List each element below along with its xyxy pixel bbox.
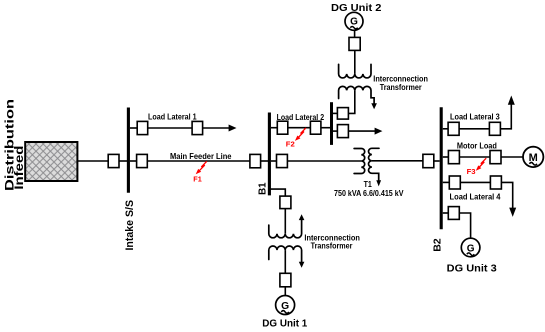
bus Intake S/S [127,108,130,193]
breaker DG2 tie [337,108,348,120]
arrow lateral 1 [229,125,237,132]
wire Intake bus to feeder breaker B [130,160,137,162]
transformer DG1 primary winding [269,220,302,238]
arrow lateral 3 up [508,96,515,105]
arrow T1 secondary down [376,180,381,186]
breaker motor-b [490,151,501,164]
wire G2 to breaker [354,30,356,37]
breaker A (infeed side) [108,154,119,167]
wire mid bus to DG2 breaker [333,112,337,114]
breaker D (feeder right of B1) [277,154,288,167]
wire breaker E to B2 [434,160,440,162]
wire lateral 4 [460,181,490,183]
svg-text:F2: F2 [286,139,295,148]
svg-text:DG Unit 3: DG Unit 3 [447,264,497,275]
svg-text:DG Unit 1: DG Unit 1 [262,319,307,330]
svg-text:Transformer: Transformer [380,83,422,92]
motor M circle [523,147,543,167]
generator G2 circle [345,12,363,30]
svg-text:750 kVA 6.6/0.415 kV: 750 kVA 6.6/0.415 kV [334,188,404,198]
generator G3 circle [461,238,480,257]
source: distribution infeed block (hatched) [25,142,77,181]
svg-text:Load Lateral 2: Load Lateral 2 [277,113,325,122]
arrow DG1 secondary down [299,262,305,268]
wire B1 bottom elbow to DG1 breaker [268,189,285,196]
wire B1 to breaker D [271,160,277,162]
arrow lateral 4 down [509,208,516,217]
breaker B (feeder) [137,154,148,167]
wire lateral 1 [148,127,192,129]
svg-text:B2: B2 [432,238,443,252]
generator G1 circle [276,296,295,315]
breaker lateral1-b [192,121,203,134]
arrow DG1 primary up [299,214,305,220]
label Interconnection Transformer (DG2) [373,74,428,92]
svg-text:Transformer: Transformer [311,242,353,251]
svg-text:Main Feeder Line: Main Feeder Line [170,152,232,161]
breaker lateral4-a [449,176,460,189]
wire lateral 2 mid [288,127,311,129]
svg-text:Infeed: Infeed [12,146,26,190]
wire motor to M [501,156,523,158]
wire B2 to motor breaker [443,156,449,158]
transformer DG2 primary winding [339,64,371,78]
svg-text:Load Lateral 4: Load Lateral 4 [450,192,501,201]
svg-text:Load Lateral 1: Load Lateral 1 [148,113,197,122]
wire DG3 elbow to generator [459,213,470,238]
fault F3 arrow [476,158,486,171]
breaker E (feeder, left of B2) [423,154,434,167]
transformer T1 primary winding [354,149,365,174]
wire breaker to G1 [284,287,286,295]
wire lateral 1 end [203,127,230,129]
breaker lateral2-a [277,121,288,134]
wire motor mid [459,156,490,158]
wire lateral 3 [459,128,489,130]
wire B1 to lateral2 breaker [271,127,277,129]
transformer T1 secondary winding [369,148,380,181]
transformer DG1 secondary winding [269,246,302,262]
breaker lateral3-a [448,122,459,135]
wire DG1 transformer to breaker [284,250,286,273]
fault F1 arrow [196,161,207,174]
breaker lateral3-b [489,122,500,135]
svg-text:Load Lateral 3: Load Lateral 3 [450,112,500,121]
wire main feeder line [147,160,250,162]
breaker DG2 [349,37,360,50]
svg-text:F3: F3 [467,167,476,176]
wire lateral 4 elbow down [501,182,512,208]
wire Intake bus to lateral1 breaker [130,127,137,129]
wire breaker C to B1 bus [261,160,268,162]
wire feeder to T1 [287,160,361,162]
label Interconnection Transformer (DG1) [304,234,360,251]
wire breaker A to Intake bus [119,160,128,162]
breaker lateral2-b [310,121,321,134]
wire B2 to DG3 breaker [443,212,449,214]
arrow DG2 secondary down [371,103,377,109]
wire mid bus to out breaker [333,130,337,132]
breaker lateral4-b [490,176,501,189]
breaker DG3 [448,207,459,220]
breaker DG1 bottom [280,273,291,287]
bus B1 [268,113,271,196]
wire lateral 3 elbow up [500,104,511,129]
wire breaker to transformer primary [354,50,356,74]
fault F2 arrow [295,128,306,141]
breaker mid out [337,125,348,138]
svg-text:Intake S/S: Intake S/S [124,200,136,251]
breaker lateral1-a [137,121,148,134]
transformer DG2 secondary winding [339,86,375,104]
bus DG2 tie (mid bus) [330,102,333,145]
svg-text:B1: B1 [257,182,268,195]
svg-text:Motor Load: Motor Load [457,141,497,150]
wire B2 to lateral4 breaker [443,181,450,183]
wire breaker to DG1 transformer [284,209,286,234]
wire infeed to breaker A [78,160,108,162]
wire mid out arrow line [348,130,375,132]
wire DG2 breaker to transformer tap [348,90,354,113]
wire T1 to breaker E [372,160,423,162]
wire B2 to lateral3 breaker [443,128,448,130]
wire lateral2 to mid bus [321,127,332,129]
breaker DG1 top [280,196,291,209]
arrow mid out [375,128,383,135]
breaker C (feeder, left of B1) [250,154,261,167]
svg-text:F1: F1 [193,174,202,183]
breaker motor-a [448,151,459,164]
bus B2 [440,107,443,229]
node Distribution Infeed label [2,99,25,191]
